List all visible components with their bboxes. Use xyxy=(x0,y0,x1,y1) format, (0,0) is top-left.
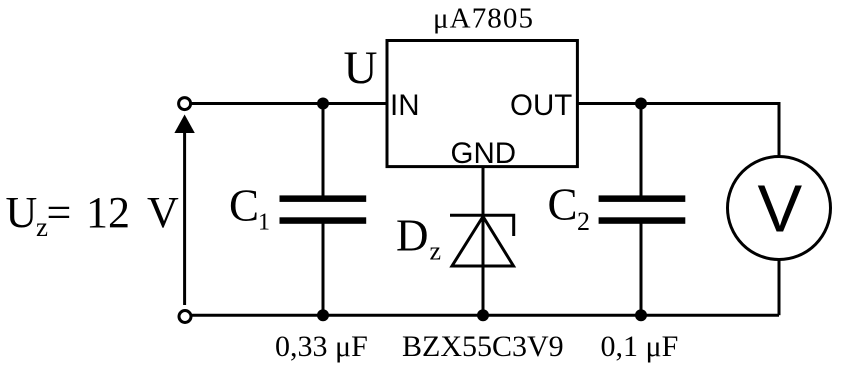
terminal bottom-left (open circle) xyxy=(179,311,191,323)
wire GND lead through zener D_z xyxy=(482,167,485,316)
label C1 xyxy=(229,181,270,236)
label C2 xyxy=(548,180,591,237)
zener diode D_z cathode bar with hook xyxy=(450,215,514,236)
wire C1 top lead xyxy=(322,104,325,197)
terminal top-left (open circle) xyxy=(179,98,191,110)
capacitor C2 bottom plate xyxy=(599,217,686,224)
svg-text:0,1 μF: 0,1 μF xyxy=(601,330,679,363)
svg-text:V: V xyxy=(758,172,803,247)
svg-text:IN: IN xyxy=(390,89,420,122)
svg-text:OUT: OUT xyxy=(510,89,572,122)
node junction dot bottom D_z xyxy=(477,309,489,321)
op-amp regulator box U (uA7805) xyxy=(387,41,577,167)
svg-text:V: V xyxy=(147,188,179,237)
svg-text:2: 2 xyxy=(577,207,590,236)
capacitor C1 top plate xyxy=(280,195,367,202)
label U_z = 12 V xyxy=(6,188,180,242)
svg-text:1: 1 xyxy=(258,210,270,236)
svg-text:U: U xyxy=(6,188,38,237)
wire voltmeter bottom lead xyxy=(778,260,781,316)
svg-text:0,33 μF: 0,33 μF xyxy=(275,330,368,363)
wire C2 bottom lead xyxy=(640,223,643,315)
svg-text:z: z xyxy=(430,237,442,266)
capacitor C2 top plate xyxy=(599,195,686,202)
svg-text:=: = xyxy=(47,188,72,237)
node junction dot top C2/OUT xyxy=(635,98,647,110)
wire C2 top lead xyxy=(640,104,643,197)
svg-text:C: C xyxy=(229,181,259,231)
svg-text:U: U xyxy=(344,42,378,94)
svg-text:GND: GND xyxy=(451,137,517,170)
svg-text:C: C xyxy=(548,180,578,230)
svg-text:D: D xyxy=(396,211,429,261)
svg-text:μA7805: μA7805 xyxy=(433,3,533,35)
svg-text:BZX55C3V9: BZX55C3V9 xyxy=(402,330,564,363)
capacitor C1 bottom plate xyxy=(280,217,367,224)
svg-text:12: 12 xyxy=(86,188,130,237)
wire top rail left (input to IN pin) xyxy=(191,102,387,105)
node junction dot bottom C2 xyxy=(635,309,647,321)
wire bottom rail xyxy=(192,314,779,317)
voltmeter V circle xyxy=(728,157,831,260)
zener diode D_z triangle xyxy=(452,217,514,267)
label D_z xyxy=(396,211,441,266)
source arrow head xyxy=(174,115,194,134)
wire C1 bottom lead xyxy=(322,223,325,315)
source arrow shaft xyxy=(183,131,186,305)
wire top rail right (OUT pin to voltmeter corner) xyxy=(578,104,780,157)
node junction dot bottom C1 xyxy=(317,309,329,321)
node junction dot top C1 xyxy=(317,98,329,110)
